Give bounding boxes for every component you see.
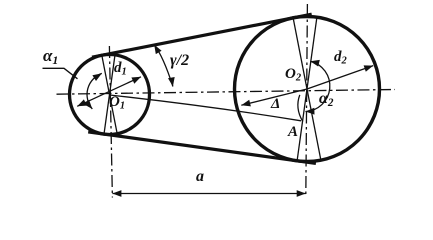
construction line from O1 parallel-offset to point A xyxy=(110,95,302,121)
center distance dimension a xyxy=(112,193,305,195)
label gamma/2 xyxy=(170,53,189,69)
vertical center line through O1 (extends to dimension a) xyxy=(109,46,112,198)
radius line to upper tangent point on large pulley (extended diameter) xyxy=(293,18,321,160)
gamma/2 angle arc between upper strand and center line xyxy=(154,45,173,87)
label d1 xyxy=(114,61,127,78)
radius line to lower tangent point on large pulley (extended diameter) xyxy=(297,17,317,161)
label alpha2 xyxy=(319,91,333,109)
alpha2 wrap angle arc on large pulley xyxy=(305,61,329,111)
label d2 xyxy=(334,50,347,67)
belt upper strand xyxy=(92,14,312,57)
alpha1 leader line xyxy=(43,68,78,79)
d1 diameter dimension line with arrows xyxy=(77,77,141,107)
label O1 xyxy=(109,95,125,112)
delta angle arc near point A xyxy=(298,95,303,122)
horizontal center line through O1 and O2 xyxy=(57,90,396,95)
radius arrow toward lower-left rim xyxy=(241,89,307,105)
label Delta xyxy=(271,97,280,112)
label alpha1 xyxy=(43,47,58,67)
label A xyxy=(288,125,298,140)
label O2 xyxy=(285,67,301,84)
belt lower strand xyxy=(88,132,316,164)
vertical center line through O2 (extends to dimension a) xyxy=(306,4,308,198)
alpha1 wrap angle arc on small pulley xyxy=(87,73,102,109)
d2 radius arrow toward upper-right rim xyxy=(307,66,373,89)
radius line to upper tangent point on small pulley (extended diameter) xyxy=(102,55,117,134)
large pulley d2 xyxy=(235,17,380,162)
label a xyxy=(196,169,204,185)
radius line to lower tangent point on small pulley (extended diameter) xyxy=(104,55,115,134)
small pulley d1 xyxy=(70,55,150,135)
